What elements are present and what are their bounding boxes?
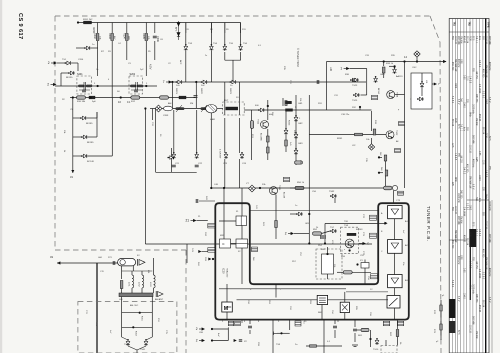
wire pair down: [136, 350, 138, 353]
resistor R240: [382, 67, 385, 73]
wire between R221 R222: [267, 142, 269, 147]
svg-text:TS22: TS22: [395, 130, 397, 136]
resistor R230 oval: [295, 186, 304, 189]
svg-text:2: 2: [48, 61, 50, 65]
svg-text:88 104: 88 104: [466, 36, 468, 44]
svg-text:BC148: BC148: [283, 192, 285, 199]
svg-text:5k6: 5k6: [380, 167, 382, 171]
node inside tower B: [384, 222, 386, 224]
wire down to R240: [383, 62, 385, 67]
wire inter-tower link: [250, 210, 378, 212]
svg-text:7: 7: [438, 82, 440, 86]
wire drop b: [195, 82, 197, 108]
table extra right column (lower part): [491, 200, 493, 353]
oscillator sub-box top right: [411, 73, 432, 109]
core bars S201: [84, 82, 86, 90]
svg-text:454 45: 454 45: [478, 305, 480, 313]
dashed box AM input unit: [78, 302, 177, 353]
svg-text:C30 22n: C30 22n: [341, 114, 350, 116]
svg-text:450 700: 450 700: [481, 249, 483, 258]
wire up stub: [96, 112, 98, 118]
wire drop from top rail: [154, 23, 156, 34]
PCB dashed border left: [54, 16, 56, 250]
wire r244 down: [385, 176, 387, 188]
ceramic filter dashed box: [223, 102, 245, 115]
table header row line: [449, 31, 489, 33]
svg-text:R205: R205: [142, 33, 145, 39]
svg-text:5.2 8.0: 5.2 8.0: [481, 91, 483, 99]
svg-text:R57: R57: [292, 261, 297, 263]
svg-text:TS9: TS9: [276, 344, 281, 346]
terminal 21: [185, 219, 196, 223]
svg-text:2.4 UKW: 2.4 UKW: [478, 84, 480, 94]
svg-text:R71: R71: [433, 329, 435, 334]
amp block triangle 1: [388, 206, 403, 219]
transistor TS203: [84, 46, 91, 50]
capacitor C220: [172, 165, 176, 167]
svg-text:R12: R12: [131, 101, 136, 103]
svg-text:C81: C81: [257, 342, 259, 347]
svg-text:R201 2k2: R201 2k2: [83, 19, 93, 21]
svg-text:4n7: 4n7: [109, 330, 111, 334]
svg-text:R63: R63: [309, 300, 311, 305]
wire em a: [224, 52, 226, 60]
svg-text:6.8 V: 6.8 V: [488, 297, 490, 303]
transistor TS22: [386, 131, 394, 139]
wire amp3 to switch: [394, 288, 396, 296]
svg-text:C70: C70: [100, 271, 105, 273]
capacitor in S201: [82, 90, 86, 92]
svg-text:2: 2: [47, 83, 49, 87]
tuning gang coupled shaft line: [162, 108, 206, 110]
table column line 9: [475, 19, 477, 353]
svg-text:R11: R11: [242, 29, 247, 31]
svg-text:968 MW: 968 MW: [472, 316, 474, 325]
svg-text:R30: R30: [345, 74, 350, 76]
capacitor C221: [195, 165, 199, 167]
svg-text:TS4: TS4: [213, 43, 218, 45]
svg-text:2k2: 2k2: [379, 152, 381, 156]
resistor R252 oval: [343, 271, 352, 274]
wire ts161 in: [146, 337, 152, 340]
svg-text:L32: L32: [352, 145, 356, 147]
svg-text:33k: 33k: [262, 184, 266, 186]
svg-text:0.55: 0.55: [478, 151, 480, 156]
transistor TS273: [375, 338, 379, 345]
resistor R203: [111, 34, 114, 41]
svg-text:AM OSC: AM OSC: [130, 304, 139, 307]
node trimmer junction: [416, 60, 418, 62]
svg-text:245 350: 245 350: [475, 294, 477, 303]
wire ts33: [322, 231, 331, 234]
svg-text:TS60: TS60: [124, 344, 130, 346]
transistor TS208: [201, 80, 208, 84]
wire lamp branch down: [96, 263, 98, 270]
svg-text:C206: C206: [156, 36, 159, 42]
table column line 7: [469, 19, 471, 353]
transistor TS206: [81, 154, 88, 158]
svg-text:6.8 V: 6.8 V: [488, 97, 490, 103]
svg-text:R62: R62: [389, 332, 391, 337]
svg-text:C62: C62: [289, 306, 291, 311]
wire TS22 base row: [309, 134, 386, 136]
amp block triangle 2: [388, 240, 403, 254]
svg-text:4u7: 4u7: [217, 333, 219, 337]
svg-text:C22: C22: [198, 163, 203, 165]
PCB dashed border left lower: [185, 250, 187, 353]
svg-text:10: 10: [304, 321, 307, 323]
resistor R243: [384, 155, 387, 161]
svg-text:R33 1k: R33 1k: [386, 63, 394, 65]
wire right col short: [170, 148, 172, 172]
svg-text:87.5: 87.5: [472, 222, 474, 227]
AM antenna triangle symbol: [158, 292, 164, 297]
wire TS204 base: [76, 117, 81, 119]
wire across module base left: [237, 299, 318, 301]
wire TS211 down: [210, 51, 212, 82]
wire switch to module edge: [394, 308, 396, 320]
resistor R271: [396, 330, 399, 337]
svg-text:6: 6: [244, 321, 246, 323]
transistor TS204: [80, 116, 87, 120]
capacitor C216: [194, 96, 198, 98]
svg-text:SW MW LW: SW MW LW: [484, 65, 486, 78]
svg-text:C8: C8: [186, 29, 190, 31]
connector label left of TS24: [372, 95, 378, 100]
resistor inside tower A: [275, 221, 278, 228]
wire S202 inner lower: [131, 89, 142, 91]
wire IF signal row: [55, 85, 157, 87]
wire corner x187 down: [186, 244, 188, 263]
wire term21: [197, 220, 208, 222]
label box below tower A: [228, 321, 234, 326]
svg-text:L161: L161: [128, 282, 130, 287]
svg-text:C2: C2: [168, 63, 172, 65]
wire filter1 to filter2: [241, 226, 243, 240]
svg-text:1: 1: [340, 67, 342, 71]
dashed box discriminator: [316, 249, 342, 279]
diode GR31: [374, 76, 378, 83]
svg-text:TS7: TS7: [330, 227, 335, 229]
stub osc: [432, 83, 434, 85]
svg-text:S0: S0: [117, 91, 120, 93]
svg-text:MIX: MIX: [220, 235, 224, 237]
wire amp1 to amp2: [394, 219, 396, 240]
svg-text:GR22: GR22: [200, 88, 202, 94]
varicap assembly oval right end of VT line: [384, 186, 393, 190]
svg-text:BC148: BC148: [356, 229, 363, 231]
svg-text:MHz: MHz: [454, 177, 456, 183]
diode GR30: [393, 67, 397, 74]
svg-text:R7: R7: [101, 51, 105, 53]
node AGC: [90, 96, 92, 98]
svg-text:1n: 1n: [96, 69, 99, 71]
connector label 21 box: [208, 223, 215, 228]
AF switch block: [317, 295, 327, 304]
svg-text:R162: R162: [135, 331, 137, 337]
tuning gang capacitor (hatched ellipse): [206, 105, 217, 113]
wire drop c: [224, 82, 226, 115]
diode GR25: [294, 115, 298, 122]
svg-text:10k: 10k: [366, 139, 370, 141]
IF transformer S202 dashed box: [129, 76, 143, 94]
svg-text:R40: R40: [205, 196, 207, 201]
wire into mute block: [344, 292, 346, 302]
node crystal: [356, 263, 358, 265]
table dark cell bottom b: [449, 321, 455, 333]
svg-text:BF194: BF194: [377, 88, 379, 95]
coil L162: [142, 275, 144, 288]
table column line 1: [452, 19, 454, 353]
node VT left: [210, 187, 212, 189]
arrow terminal with capacitor at end: [234, 339, 237, 342]
svg-text:MHz: MHz: [469, 285, 471, 291]
svg-text:AFC: AFC: [179, 60, 182, 65]
svg-text:12.5: 12.5: [451, 143, 453, 148]
node supply left end: [77, 21, 79, 23]
crystal component: [361, 263, 369, 269]
svg-text:R 26: R 26: [469, 232, 471, 238]
wire drop from top rail: [145, 23, 147, 34]
svg-text:TS11: TS11: [257, 119, 259, 125]
svg-text:R8: R8: [210, 29, 214, 31]
resistor R265 on bottom wire: [310, 345, 317, 347]
wire rod left down: [121, 297, 123, 337]
wire right stub: [282, 98, 284, 106]
svg-text:R74: R74: [157, 318, 159, 323]
svg-text:FM AM: FM AM: [459, 216, 462, 223]
table column line 10: [479, 19, 481, 353]
svg-text:TS32: TS32: [329, 191, 335, 193]
transistor TS160: [126, 339, 130, 346]
svg-text:TS24: TS24: [396, 92, 398, 98]
svg-text:GR5: GR5: [475, 157, 477, 162]
terminal arrow bottom of bias column: [71, 170, 74, 173]
resistor R221: [267, 136, 270, 142]
diode GR32 in osc box: [420, 81, 424, 88]
wire capsule leg b: [132, 266, 134, 271]
svg-text:1k: 1k: [63, 150, 65, 153]
stub c278b: [334, 330, 336, 338]
wire term1: [350, 68, 367, 70]
svg-text:R15: R15: [283, 66, 285, 71]
svg-text:87.5: 87.5: [488, 136, 490, 141]
svg-text:TDA1220: TDA1220: [226, 268, 229, 278]
node GR30 top: [394, 65, 396, 67]
svg-text:968 MW: 968 MW: [457, 216, 459, 225]
svg-text:TR1: TR1: [453, 22, 455, 27]
svg-text:R70: R70: [433, 310, 435, 315]
wire capsule leg a: [121, 266, 123, 279]
wire module out b: [272, 320, 274, 353]
variable trimmer diamond top right: [414, 51, 420, 57]
wire t2a rung: [212, 328, 228, 330]
svg-text:104.5: 104.5: [463, 102, 465, 108]
wire drop from top rail: [224, 23, 226, 34]
stub M left: [226, 306, 231, 308]
node row7 b: [195, 81, 197, 83]
capacitor C215 on B+ row: [317, 80, 319, 84]
resistor R227 dark: [286, 101, 292, 103]
coil S201 secondary (dark): [86, 85, 93, 88]
node bias top: [72, 96, 74, 98]
node vt b: [259, 187, 261, 189]
stub: [153, 288, 155, 293]
svg-text:BC148: BC148: [87, 161, 94, 163]
wire r160 to rod: [121, 289, 123, 294]
wire disc bottom: [327, 274, 329, 279]
svg-text:GR21: GR21: [175, 88, 177, 94]
wire TS202 base: [61, 72, 68, 74]
svg-text:C61: C61: [204, 257, 206, 262]
wire dial lamp feed: [57, 262, 118, 264]
svg-text:1962: 1962: [454, 83, 456, 89]
svg-text:2.4 UKW: 2.4 UKW: [463, 207, 465, 217]
terminal 1 top right: [340, 67, 349, 71]
node vt a: [223, 187, 225, 189]
svg-text:2: 2: [196, 339, 198, 343]
switch block: [387, 296, 400, 309]
svg-text:87.5: 87.5: [457, 330, 459, 335]
transistor TS207: [176, 80, 183, 84]
terminal arrow 31 bottom: [57, 261, 60, 264]
svg-text:LW 150: LW 150: [475, 261, 477, 269]
wire across module base right: [328, 299, 388, 301]
svg-text:0.9 1.1: 0.9 1.1: [459, 124, 461, 132]
node t2a: [211, 328, 213, 330]
svg-text:LA1: LA1: [98, 256, 103, 259]
wire R205 to IF transformer S202: [145, 41, 147, 76]
wire tower down to base bus: [275, 284, 277, 298]
svg-text:FILT: FILT: [224, 100, 229, 102]
svg-text:0.55: 0.55: [463, 75, 465, 80]
table column line 4: [460, 19, 462, 353]
svg-text:R3: R3: [108, 51, 112, 53]
coil L161: [132, 275, 134, 288]
svg-text:0.5: 0.5: [258, 45, 262, 47]
transistor TS214: [172, 152, 176, 159]
wire mid col: [285, 135, 287, 140]
table column line 8: [472, 19, 474, 353]
transistor TS32: [330, 194, 337, 198]
wire gr28: [290, 213, 297, 215]
svg-text:TS10: TS10: [373, 349, 379, 351]
svg-text:R223: R223: [288, 120, 290, 126]
resistor R280: [440, 305, 442, 311]
wire filter chain to M block: [226, 284, 228, 302]
svg-text:C55: C55: [360, 255, 365, 257]
svg-text:C6: C6: [160, 39, 164, 41]
wire column R203 down to TS206: [111, 98, 113, 157]
svg-text:S3: S3: [236, 97, 239, 99]
svg-text:R50 1k: R50 1k: [297, 182, 305, 184]
arrow into amp1: [384, 222, 387, 225]
resistor R205: [145, 34, 148, 41]
transistor TS213: [239, 44, 243, 51]
svg-text:BC148B: BC148B: [260, 133, 262, 141]
wire ts160 in: [122, 337, 128, 340]
svg-text:TYPE: TYPE: [487, 22, 489, 28]
svg-text:C73: C73: [396, 200, 401, 202]
svg-text:TS61: TS61: [140, 349, 146, 351]
svg-text:2.4 UKW: 2.4 UKW: [478, 269, 480, 279]
svg-text:31: 31: [50, 255, 54, 259]
svg-text:BF185: BF185: [86, 123, 93, 125]
transistor TS25: [353, 93, 360, 97]
svg-text:1.4 2.8: 1.4 2.8: [484, 170, 486, 178]
svg-text:468 kHz: 468 kHz: [457, 256, 459, 265]
svg-text:110 115: 110 115: [469, 325, 471, 334]
svg-text:TS3: TS3: [188, 43, 193, 45]
node r270: [369, 338, 371, 340]
connector label module left c2: [371, 274, 378, 279]
transistor TS201: [65, 61, 72, 65]
svg-text:245 350: 245 350: [475, 94, 477, 103]
coil gang section a (dark): [175, 107, 184, 110]
svg-text:87.5: 87.5: [457, 124, 459, 129]
wire col b down: [196, 110, 198, 153]
capacitor C206: [153, 36, 157, 38]
svg-text:SW MW LW: SW MW LW: [484, 257, 486, 270]
capacitor C260: [113, 261, 115, 265]
svg-text:C203: C203: [163, 115, 169, 117]
svg-text:1.4 2.8: 1.4 2.8: [469, 261, 471, 269]
svg-text:454 45: 454 45: [463, 235, 465, 243]
svg-text:C: C: [381, 251, 383, 253]
wire R222 down: [267, 153, 269, 160]
wire S201 inner lower: [79, 89, 90, 91]
terminal C arrow: [363, 242, 366, 245]
svg-text:TS6: TS6: [243, 43, 248, 45]
stub c279: [354, 320, 356, 327]
transistor TS216: [224, 152, 228, 159]
wire r270 down: [370, 330, 372, 347]
svg-text:1.4 2.8: 1.4 2.8: [454, 153, 456, 161]
svg-text:LW 150: LW 150: [475, 71, 477, 79]
svg-text:5.2 8.0: 5.2 8.0: [481, 272, 483, 280]
svg-text:R71: R71: [108, 257, 113, 259]
node r243: [378, 156, 380, 158]
svg-text:© TUNER TRIM: © TUNER TRIM: [296, 48, 300, 67]
svg-text:21: 21: [198, 216, 201, 218]
svg-text:GR1: GR1: [298, 103, 303, 105]
svg-text:10u: 10u: [402, 262, 404, 266]
svg-text:C43: C43: [191, 248, 193, 253]
stub: [131, 288, 133, 293]
wire module pin down: [289, 320, 291, 330]
IF transformer S201 dashed box: [77, 76, 92, 94]
svg-text:2: 2: [196, 327, 198, 331]
svg-text:88 104: 88 104: [466, 238, 468, 246]
resistor R160: [120, 281, 123, 289]
svg-text:C71: C71: [362, 232, 364, 237]
wire ts160 out: [128, 346, 137, 350]
svg-text:R44: R44: [197, 262, 199, 267]
svg-text:110 115: 110 115: [469, 145, 471, 154]
IC block mixer: [220, 239, 231, 248]
wire inside tower A to filter1: [241, 203, 243, 216]
dial lamp capsule: [118, 259, 136, 266]
wire l163 top: [153, 258, 155, 275]
resistor R213 oval: [160, 96, 169, 99]
diode GR28: [296, 212, 303, 216]
svg-text:8: 8: [258, 321, 260, 323]
coil S202 secondary (dark): [137, 85, 143, 88]
wire C206 down: [154, 41, 156, 60]
wire gang gnd stub: [152, 109, 154, 121]
table column line 6: [466, 19, 468, 353]
svg-text:R161: R161: [141, 316, 143, 322]
